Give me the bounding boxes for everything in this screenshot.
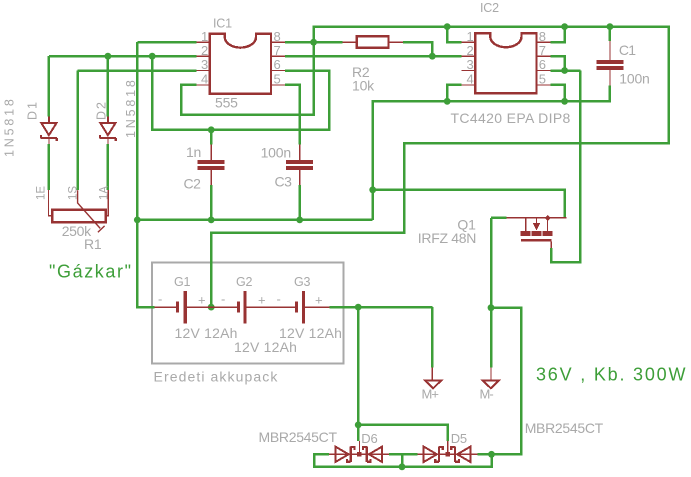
capacitor C3 [299,145,301,185]
battery pack box [152,263,343,364]
svg-text:-: - [158,292,162,307]
IC2 TC4420 body [475,33,536,93]
svg-text:D2: D2 [95,100,109,120]
svg-text:6: 6 [539,57,546,72]
svg-text:1: 1 [467,29,474,44]
wire GND to Q1 drain [373,190,565,218]
wire C2 bottom [210,185,213,220]
IC2 pin stubs 1-4 [461,42,475,85]
svg-text:3: 3 [201,57,208,72]
wire GND under caps [137,219,372,222]
junction dots [310,39,317,46]
svg-text:M-: M- [480,386,494,401]
svg-text:5: 5 [539,72,546,87]
IC2 pin stubs 8-5 [537,42,551,85]
svg-text:-: - [221,292,225,307]
svg-text:12V 12Ah: 12V 12Ah [234,339,297,355]
wire GND to IC2/C1 bottom [373,86,610,190]
dual diode D6 [329,441,389,462]
svg-text:C2: C2 [184,176,202,192]
wire D1 cathode riser [48,56,51,116]
IC1 pin stubs 8-5 [271,42,285,85]
svg-text:6: 6 [274,57,281,72]
wire pin3 to R1 wiper [76,71,79,191]
svg-text:-: - [277,292,281,307]
battery G3 plates [295,302,298,313]
svg-text:1: 1 [201,29,208,44]
svg-text:G3: G3 [294,275,311,289]
wire driver out to Q1 gate [551,71,580,263]
svg-text:R1: R1 [84,236,102,252]
terminal M+ [431,367,433,380]
transistor Q1 leads [507,217,567,219]
svg-text:IC2: IC2 [480,1,499,15]
svg-text:8: 8 [274,29,281,44]
wire C2 top [210,130,213,145]
wire to D5 center [358,425,448,441]
wire IC2 pin1 riser [447,27,461,43]
potentiometer R1 [52,210,106,222]
svg-text:+: + [315,293,323,308]
svg-text:TC4420 EPA DIP8: TC4420 EPA DIP8 [451,110,571,126]
wire IC1 pin5 to C3 [285,85,300,145]
wire M- net right loop [477,308,521,455]
Q1 body diode diamond [545,215,551,221]
wire D6 to D5 link [389,453,418,456]
svg-text:5: 5 [274,72,281,87]
svg-text:555: 555 [215,95,238,111]
wire GND pin1 IC1 [137,41,196,44]
svg-text:C1: C1 [619,42,636,58]
svg-text:7: 7 [274,43,281,58]
wire GND left vertical [136,42,139,220]
wire GND to G1 minus [137,220,154,307]
svg-text:1E: 1E [36,186,48,200]
svg-text:2: 2 [467,43,474,58]
wire C3 bottom [298,185,301,220]
D5 common cathode junction [445,452,450,457]
capacitor C2 [210,145,212,185]
wire diode bottom rail [314,454,492,467]
Q1 channel pads [521,231,531,236]
svg-text:10k: 10k [352,78,375,94]
svg-text:1A: 1A [99,186,111,200]
wire G3 plus out [330,306,433,309]
wire D2 anode to R1 1A [107,144,110,190]
wire IC1 pin8 to R2 left [285,41,343,44]
dual diode D5 [418,441,478,462]
Q1 arrow head [533,223,541,231]
IC1 pin stubs 1-4 [196,42,209,85]
svg-text:+: + [258,293,266,308]
wire Q1 source to M- [490,218,493,367]
wire VCC top rail and right loop to battery tap [211,27,669,308]
battery G2 plates [237,302,240,313]
svg-text:1N5818: 1N5818 [124,77,138,138]
diode D2 [100,116,117,144]
svg-text:IRFZ 48N: IRFZ 48N [418,230,476,246]
svg-text:+: + [198,293,206,308]
svg-text:3: 3 [467,57,474,72]
svg-text:G1: G1 [174,275,191,289]
battery leads [155,306,330,308]
svg-text:"Gázkar": "Gázkar" [49,261,133,281]
svg-text:D1: D1 [26,100,40,120]
wire battery plus to diode centers [357,307,360,441]
svg-text:7: 7 [539,43,546,58]
svg-text:12V 12Ah: 12V 12Ah [175,325,238,341]
resistor R2 [357,36,389,48]
C2 plates [198,160,225,164]
wire IC1 pin3 [78,69,197,72]
svg-text:MBR2545CT: MBR2545CT [525,420,604,436]
wire Q1 source stub [491,217,507,220]
wire M+ drop [431,307,434,367]
capacitor C1 [609,41,611,86]
wire IC2 pin8 riser [550,27,564,43]
svg-text:Eredeti akkupack: Eredeti akkupack [154,369,279,385]
D6 common cathode junction [357,452,362,457]
svg-text:D5: D5 [451,431,467,446]
svg-text:2: 2 [201,43,208,58]
wire D1 anode to R1 1E [48,144,51,190]
wire IC2 pin6 out [550,69,580,72]
svg-text:4: 4 [467,72,474,87]
wire GND riser [371,190,374,220]
battery G1 plates [176,302,179,313]
Q1 gate bar [521,239,552,241]
svg-text:G2: G2 [236,275,253,289]
C1 plates [597,60,624,64]
wire IC2 pin7 out [550,56,564,70]
wire IC2 pin4 [447,85,461,101]
svg-text:D6: D6 [361,431,377,446]
svg-text:1N5818: 1N5818 [3,96,17,157]
terminal M- [490,367,492,380]
svg-text:C3: C3 [275,174,293,190]
wire IC1 pin4 reset loop [181,42,314,115]
svg-text:IC1: IC1 [213,17,232,31]
wire IC2 pin5 [550,85,564,101]
svg-text:1n: 1n [186,144,201,160]
svg-text:36V , Kb. 300W: 36V , Kb. 300W [536,364,687,384]
wire pin2 to pin6 link [152,56,329,130]
op-amp IC1 555 body [210,34,271,94]
wire IC1 pin7 to IC2 pin2 [285,55,462,58]
svg-text:100n: 100n [261,145,291,161]
svg-text:M+: M+ [422,386,439,401]
diode D1 [41,116,58,144]
svg-text:MBR2545CT: MBR2545CT [259,429,338,445]
wire R2 right to IC2 pin2 [403,42,432,56]
svg-text:100n: 100n [619,71,649,87]
C3 plates [286,160,313,164]
wire link riser [401,454,404,467]
wire D1 to IC1 pin2 [49,55,197,58]
wire C1 top [609,27,612,41]
svg-text:4: 4 [201,72,208,87]
wire D2 drop [107,56,110,116]
svg-text:8: 8 [539,29,546,44]
svg-text:1S: 1S [68,186,80,200]
